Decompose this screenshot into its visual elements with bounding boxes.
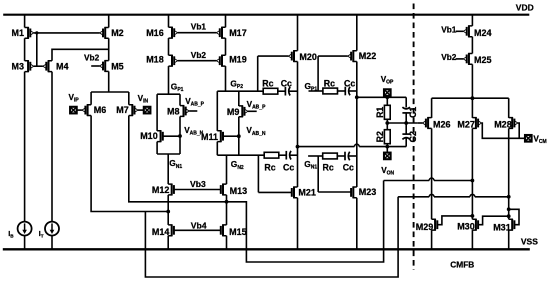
svg-text:M9: M9 [227,107,240,117]
svg-text:M16: M16 [146,28,164,38]
svg-text:Vb1: Vb1 [191,22,207,32]
svg-text:M24: M24 [474,28,492,38]
svg-text:M8: M8 [167,107,180,117]
svg-text:Rc: Rc [323,162,334,172]
svg-text:Vb4: Vb4 [191,221,207,231]
svg-text:M2: M2 [111,28,124,38]
svg-text:Rc: Rc [324,79,335,89]
svg-text:Vb1: Vb1 [441,25,457,35]
svg-text:C1: C1 [408,107,418,118]
svg-text:R1: R1 [375,107,385,118]
svg-text:Vb2: Vb2 [84,52,100,62]
svg-text:M15: M15 [229,227,247,237]
svg-text:Vb3: Vb3 [190,179,206,189]
svg-text:Cc: Cc [283,163,294,173]
svg-text:M29: M29 [416,222,434,232]
svg-text:M23: M23 [359,187,377,197]
svg-text:M27: M27 [457,120,475,130]
svg-text:M13: M13 [230,186,248,196]
svg-text:M10: M10 [140,131,158,141]
svg-text:M25: M25 [474,55,492,65]
svg-text:M22: M22 [359,51,377,61]
svg-text:M12: M12 [152,185,170,195]
svg-text:Rc: Rc [264,163,275,173]
svg-text:R2: R2 [375,131,385,142]
svg-text:C2: C2 [408,131,418,142]
svg-text:M26: M26 [433,120,451,130]
svg-text:CMFB: CMFB [450,260,474,270]
svg-text:M28: M28 [494,120,512,130]
svg-text:M30: M30 [457,222,475,232]
svg-text:M3: M3 [12,61,25,71]
svg-text:M11: M11 [201,132,218,142]
svg-text:M4: M4 [56,61,69,71]
svg-text:Cc: Cc [281,79,292,89]
svg-text:M7: M7 [116,105,129,115]
svg-text:Vb2: Vb2 [441,52,457,62]
svg-text:VDD: VDD [516,2,534,12]
svg-text:M21: M21 [298,188,316,198]
svg-text:M20: M20 [299,52,317,62]
svg-text:M19: M19 [229,55,247,65]
svg-text:Cc: Cc [343,162,354,172]
svg-text:M18: M18 [146,55,164,65]
svg-text:M6: M6 [94,105,107,115]
svg-text:Rc: Rc [262,79,273,89]
svg-text:M5: M5 [111,61,124,71]
svg-text:Vb2: Vb2 [191,50,207,60]
svg-text:M17: M17 [229,28,247,38]
svg-text:Cc: Cc [344,79,355,89]
svg-text:M14: M14 [152,227,170,237]
svg-text:VSS: VSS [521,237,538,247]
svg-text:M1: M1 [12,28,25,38]
